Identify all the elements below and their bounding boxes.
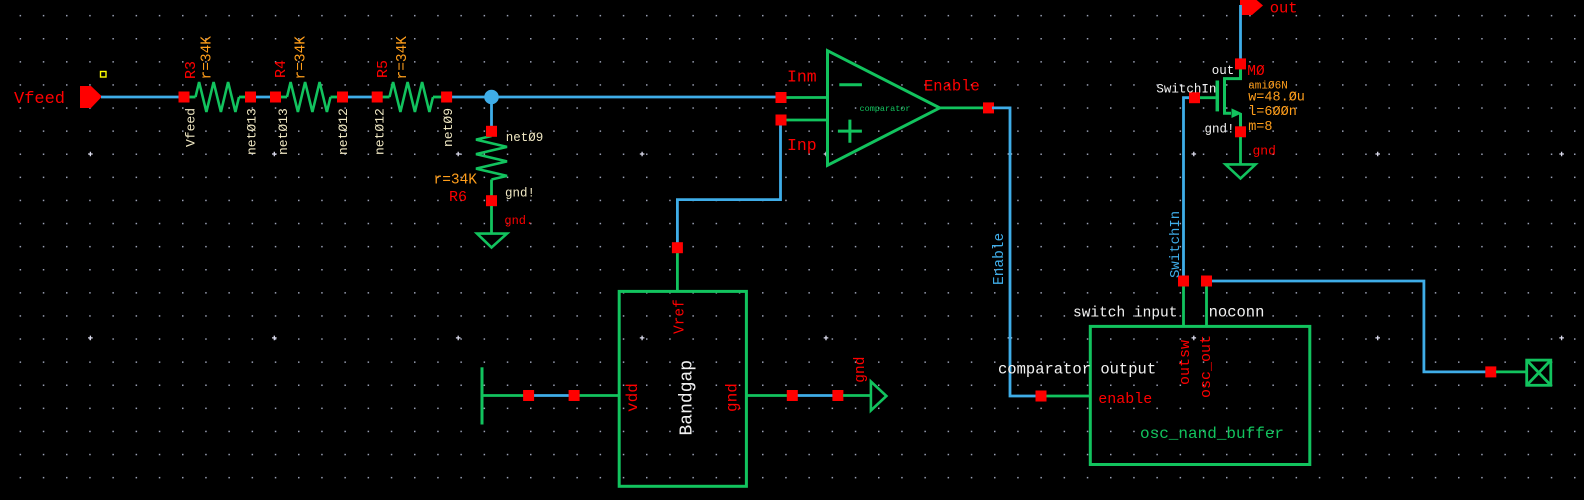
svg-text:l=6ØØn: l=6ØØn xyxy=(1248,105,1297,120)
ground symbol (R6) xyxy=(490,206,493,234)
ground symbol (rotated right) xyxy=(843,394,871,397)
svg-text:Enable: Enable xyxy=(924,78,980,96)
svg-text:out: out xyxy=(1270,0,1298,18)
pin stub vdd xyxy=(578,394,619,397)
pin square gate (SwitchIn) xyxy=(1189,92,1200,103)
pin square osc_out xyxy=(1201,276,1212,287)
pin square tap xyxy=(523,390,534,401)
junction node net09 xyxy=(490,97,493,131)
pin square Inp xyxy=(776,115,787,126)
svg-text:Inp: Inp xyxy=(787,136,817,155)
svg-text:SwitchIn: SwitchIn xyxy=(1168,211,1184,278)
pin Vref stub xyxy=(676,250,679,291)
svg-text:gnd: gnd xyxy=(853,357,869,383)
pin square vdd xyxy=(569,390,580,401)
svg-text:r=34K: r=34K xyxy=(395,36,411,80)
svg-text:comparator output: comparator output xyxy=(998,361,1156,379)
svg-text:gnd!: gnd! xyxy=(505,187,535,201)
pin stub outsw xyxy=(1182,284,1185,326)
transistor M0 xyxy=(1225,66,1241,113)
svg-text:gnd: gnd xyxy=(724,383,742,412)
supply tap (vdd) xyxy=(481,367,484,424)
noConn symbol xyxy=(1496,370,1527,373)
svg-text:noconn: noconn xyxy=(1209,304,1265,322)
svg-text:SwitchIn: SwitchIn xyxy=(1156,83,1216,97)
pin square noconn xyxy=(1485,366,1496,377)
pin Vfeed xyxy=(80,86,102,108)
wire Vfeed net xyxy=(101,96,187,99)
svg-text:switch input: switch input xyxy=(1073,306,1177,322)
pin square gnd-b xyxy=(832,390,843,401)
svg-text:netØ12: netØ12 xyxy=(373,108,388,155)
ground symbol (M0) xyxy=(1239,137,1242,164)
svg-text:MØ: MØ xyxy=(1247,64,1265,80)
resistor R3 xyxy=(184,96,196,99)
pin square Vref xyxy=(672,242,683,253)
pin square Inm xyxy=(776,92,787,103)
origin marker xyxy=(101,72,107,78)
svg-text:R3: R3 xyxy=(183,61,200,79)
svg-text:w=48.Øu: w=48.Øu xyxy=(1248,91,1305,106)
svg-text:osc_out: osc_out xyxy=(1198,335,1215,398)
svg-text:netØ13: netØ13 xyxy=(245,108,260,155)
svg-text:R6: R6 xyxy=(449,189,467,206)
block osc_nand_buffer xyxy=(1090,326,1310,464)
wire tap to vdd xyxy=(530,394,572,397)
pin square drain (out) xyxy=(1235,58,1246,69)
svg-text:comparator: comparator xyxy=(860,104,911,114)
svg-text:netØ9: netØ9 xyxy=(506,131,544,145)
wire Inp net xyxy=(677,123,780,244)
resistor R6 xyxy=(490,131,493,136)
wire Enable net xyxy=(992,108,1037,396)
svg-text:enable: enable xyxy=(1098,391,1152,408)
svg-text:r=34K: r=34K xyxy=(434,173,478,189)
svg-text:Vfeed: Vfeed xyxy=(14,90,65,109)
svg-text:gnd: gnd xyxy=(1253,144,1276,159)
pin square gnd-a xyxy=(787,390,798,401)
svg-text:osc_nand_buffer: osc_nand_buffer xyxy=(1140,425,1284,443)
pin stub enable xyxy=(1045,395,1090,398)
pin square enable xyxy=(1036,391,1047,402)
pin out (top) xyxy=(1240,0,1263,15)
resistor R5 xyxy=(377,96,389,99)
svg-text:netØ9: netØ9 xyxy=(441,108,456,147)
svg-text:netØ13: netØ13 xyxy=(276,108,291,155)
svg-text:Inm: Inm xyxy=(787,68,817,87)
svg-text:Bandgap: Bandgap xyxy=(678,360,698,436)
pin stub osc_out xyxy=(1205,284,1208,326)
wire SwitchIn net xyxy=(1184,98,1193,278)
svg-text:out: out xyxy=(1212,64,1235,78)
svg-text:Vref: Vref xyxy=(673,299,689,334)
resistor R4 xyxy=(276,96,288,99)
svg-text:gnd.: gnd. xyxy=(504,214,533,228)
svg-text:outsw: outsw xyxy=(1177,340,1194,385)
svg-text:r=34K: r=34K xyxy=(294,36,310,80)
block Bandgap xyxy=(619,291,746,486)
pin square outsw xyxy=(1178,276,1189,287)
svg-text:r=34K: r=34K xyxy=(200,36,216,80)
wire out net xyxy=(1239,5,1242,62)
wire noconn net xyxy=(1207,281,1488,372)
svg-text:R4: R4 xyxy=(273,60,290,78)
svg-text:gnd!: gnd! xyxy=(1205,123,1235,137)
svg-text:vdd: vdd xyxy=(624,383,642,412)
op-amp U comparator xyxy=(781,96,828,99)
pin square comparator out xyxy=(983,102,994,113)
svg-text:R5: R5 xyxy=(375,60,392,78)
svg-text:netØ12: netØ12 xyxy=(336,108,351,155)
pin stub gnd xyxy=(746,394,788,397)
svg-text:m=8: m=8 xyxy=(1248,120,1272,135)
pin square source (gnd) xyxy=(1235,126,1246,137)
svg-text:Vfeed: Vfeed xyxy=(184,108,199,147)
wire gnd net xyxy=(796,394,834,397)
svg-text:Enable: Enable xyxy=(992,233,1008,285)
